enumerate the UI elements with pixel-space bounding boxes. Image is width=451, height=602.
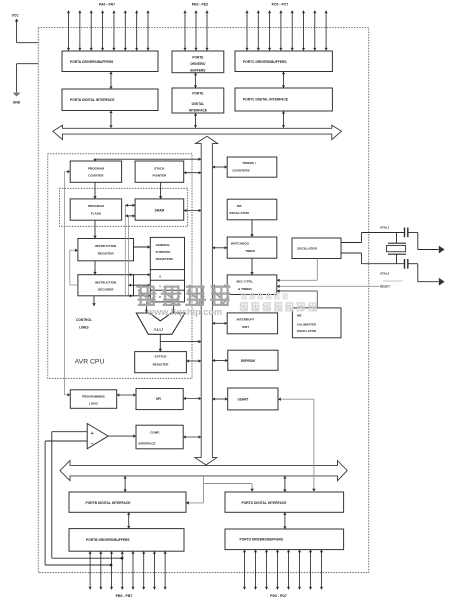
svg-text:COUNTER: COUNTER — [88, 174, 104, 178]
svg-text:Z: Z — [159, 295, 161, 299]
svg-text:INSTRUCTION: INSTRUCTION — [95, 244, 117, 248]
svg-text:SPI: SPI — [156, 397, 161, 401]
svg-text:−: − — [90, 441, 93, 447]
svg-text:USART: USART — [238, 398, 249, 402]
svg-text:COMP.: COMP. — [150, 431, 160, 435]
svg-text:INTERFACE: INTERFACE — [189, 108, 207, 112]
svg-text:CALIBRATED: CALIBRATED — [297, 323, 317, 327]
svg-text:X: X — [159, 274, 161, 278]
svg-text:FLASH: FLASH — [91, 212, 102, 216]
svg-text:POINTER: POINTER — [153, 174, 168, 178]
svg-text:OSCILLATOR: OSCILLATOR — [229, 211, 250, 215]
svg-text:PROGRAMMING: PROGRAMMING — [82, 395, 105, 399]
svg-text:& TIMING: & TIMING — [238, 287, 253, 291]
svg-text:GND: GND — [13, 101, 21, 105]
svg-text:UNIT: UNIT — [242, 325, 249, 329]
svg-text:PORTB DIGITAL INTERFACE: PORTB DIGITAL INTERFACE — [86, 501, 132, 505]
svg-text:CONTROL: CONTROL — [76, 318, 92, 322]
svg-text:PORTE: PORTE — [192, 92, 203, 96]
svg-text:DIGITAL: DIGITAL — [192, 102, 205, 106]
svg-text:Y: Y — [159, 285, 161, 289]
svg-text:PROGRAM: PROGRAM — [88, 204, 105, 208]
svg-text:RESET: RESET — [380, 285, 390, 289]
svg-text:PB0 - PB7: PB0 - PB7 — [116, 594, 133, 598]
svg-text:INT.: INT. — [237, 204, 243, 208]
svg-text:EEPROM: EEPROM — [241, 359, 255, 363]
svg-text:TIMER: TIMER — [245, 249, 255, 253]
svg-text:PORTC DIGITAL INTERFACE: PORTC DIGITAL INTERFACE — [243, 98, 289, 102]
svg-text:STACK: STACK — [154, 166, 165, 170]
svg-text:PORTE: PORTE — [192, 55, 203, 59]
svg-text:WATCHDOG: WATCHDOG — [231, 241, 250, 245]
svg-text:www.hqchip.com: www.hqchip.com — [146, 307, 222, 317]
svg-text:INT.: INT. — [297, 314, 303, 318]
svg-text:DECODER: DECODER — [98, 288, 114, 292]
svg-text:VCC: VCC — [12, 14, 20, 18]
svg-text:PC0 - PC7: PC0 - PC7 — [272, 3, 289, 7]
svg-text:PORTD DIGITAL INTERFACE: PORTD DIGITAL INTERFACE — [242, 501, 288, 505]
svg-text:XTAL2: XTAL2 — [380, 272, 390, 276]
svg-text:REGISTER: REGISTER — [153, 362, 170, 366]
svg-text:GENERAL: GENERAL — [156, 243, 171, 247]
svg-text:LOGIC: LOGIC — [89, 401, 99, 405]
svg-text:+: + — [91, 431, 94, 437]
svg-text:TIMERS /: TIMERS / — [242, 161, 256, 165]
svg-text:XTAL1: XTAL1 — [380, 226, 390, 230]
svg-text:COUNTERS: COUNTERS — [232, 169, 249, 173]
svg-text:MCU CTRL.: MCU CTRL. — [236, 280, 253, 284]
svg-text:PORTB DRIVERS/BUFFERS: PORTB DRIVERS/BUFFERS — [86, 538, 130, 542]
svg-text:INTERFACE: INTERFACE — [138, 442, 155, 446]
svg-text:PORTA DRIVERS/BUFFERS: PORTA DRIVERS/BUFFERS — [70, 60, 114, 64]
svg-text:ALU: ALU — [154, 327, 164, 333]
svg-text:STATUS: STATUS — [155, 354, 167, 358]
svg-text:PORTA DIGITAL INTERFACE: PORTA DIGITAL INTERFACE — [70, 98, 115, 102]
svg-text:LINES: LINES — [79, 326, 88, 330]
svg-text:OSCILLATOR: OSCILLATOR — [297, 247, 318, 251]
svg-text:REGISTER: REGISTER — [98, 252, 115, 256]
svg-text:DRIVERS/: DRIVERS/ — [190, 62, 205, 66]
svg-text:PORTD DRIVERS/BUFFERS: PORTD DRIVERS/BUFFERS — [240, 538, 284, 542]
svg-text:INTERRUPT: INTERRUPT — [237, 318, 255, 322]
svg-text:BUFFERS: BUFFERS — [190, 68, 205, 72]
svg-text:AVR CPU: AVR CPU — [75, 359, 105, 366]
svg-text:SRAM: SRAM — [155, 208, 165, 212]
svg-text:PE0 - PE2: PE0 - PE2 — [192, 3, 208, 7]
svg-text:PURPOSE: PURPOSE — [156, 250, 171, 254]
svg-text:PA0 - PA7: PA0 - PA7 — [99, 3, 115, 7]
svg-text:PD0 - PD7: PD0 - PD7 — [270, 594, 287, 598]
svg-text:INSTRUCTION: INSTRUCTION — [95, 280, 117, 284]
svg-text:PORTC DRIVERS/BUFFERS: PORTC DRIVERS/BUFFERS — [243, 60, 287, 64]
svg-text:REGISTERS: REGISTERS — [156, 257, 173, 261]
svg-text:OSCILLATOR: OSCILLATOR — [297, 329, 317, 333]
svg-text:PROGRAM: PROGRAM — [88, 166, 105, 170]
